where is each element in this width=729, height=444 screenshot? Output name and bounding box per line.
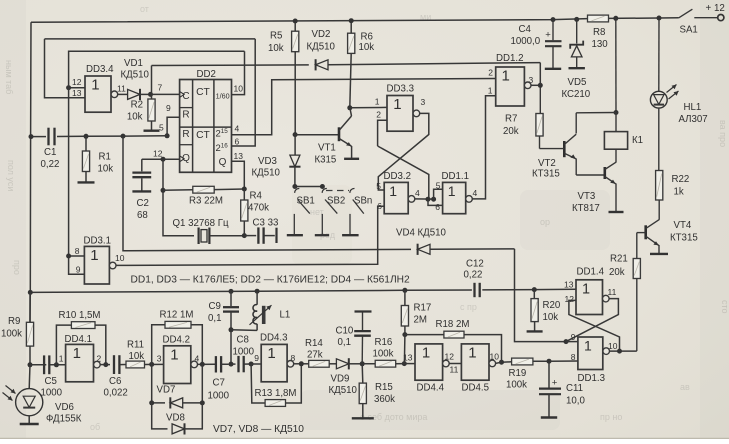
junction R5-VT1 base	[293, 132, 298, 137]
junction rail-VD5	[574, 17, 579, 22]
svg-text:КС210: КС210	[562, 89, 591, 100]
svg-text:4: 4	[235, 124, 240, 134]
junction VD7 left	[149, 400, 154, 405]
output bubble DD1.2	[524, 82, 531, 89]
resistor R19 100k	[512, 358, 533, 365]
svg-text:VD7: VD7	[157, 385, 176, 396]
inductor L1 variable	[256, 291, 258, 305]
transistor VT4 KT315	[644, 225, 647, 239]
svg-text:12: 12	[72, 77, 82, 87]
svg-text:+: +	[552, 377, 558, 388]
SB1 fixed contact bar	[275, 228, 277, 243]
junction SB1 top	[292, 184, 297, 189]
junction bus-R20	[532, 287, 537, 292]
svg-text:1: 1	[582, 281, 590, 297]
transistor VT1 K315	[338, 127, 341, 141]
svg-text:C2: C2	[137, 198, 149, 209]
svg-text:10k: 10k	[359, 42, 375, 53]
junction R17-R18	[402, 332, 407, 337]
resistor R7 20k	[539, 85, 541, 113]
resistor R1 10k	[85, 136, 87, 151]
svg-text:1: 1	[170, 346, 178, 363]
svg-text:SBn: SBn	[354, 196, 372, 207]
wire DD3.2 output to DD1.1 inputs	[415, 198, 435, 200]
junction C5-R10-DD4.1	[54, 362, 59, 367]
svg-text:DD1, DD3 — К176ЛЕ5; DD2 — К176: DD1, DD3 — К176ЛЕ5; DD2 — К176ИЕ12; DD4 …	[131, 275, 410, 286]
capacitor C10 0,1	[362, 312, 364, 331]
svg-text:R4: R4	[250, 191, 263, 202]
resistor R22 1k	[656, 171, 663, 201]
gate DD1.2	[496, 67, 525, 106]
svg-text:10: 10	[115, 253, 125, 263]
svg-text:20k: 20k	[609, 267, 625, 278]
gate DD4.3	[261, 344, 287, 381]
svg-text:6: 6	[235, 137, 240, 147]
svg-text:12: 12	[153, 149, 163, 159]
junction DD3.4 pin12 node	[66, 85, 71, 90]
svg-text:DD3.4: DD3.4	[86, 64, 114, 75]
junction bus-R17	[402, 288, 407, 293]
output bubble DD3.4	[111, 91, 118, 98]
svg-text:0,22: 0,22	[41, 159, 60, 170]
svg-text:VT4: VT4	[674, 220, 692, 231]
svg-text:КТ315: КТ315	[670, 233, 698, 244]
resistor R5 10k	[294, 21, 296, 31]
svg-text:4: 4	[473, 188, 478, 198]
junction frame-C1	[29, 134, 34, 139]
svg-text:360k: 360k	[374, 394, 395, 405]
junction R4 bottom	[242, 233, 247, 238]
resistor R11 10k	[126, 361, 145, 368]
wire DD3.3 output cross to DD3.2 pin5	[378, 113, 429, 190]
capacitor C9 0,1	[230, 291, 232, 306]
svg-text:100k: 100k	[506, 380, 527, 391]
junction bus-SB loop	[121, 134, 126, 139]
svg-text:3: 3	[157, 354, 162, 364]
wire DD3.4 pin13 input	[45, 39, 86, 98]
junction R11-DD4.2 node	[149, 362, 154, 367]
diode VD3 KD510	[294, 135, 296, 156]
output bubble DD1.3	[603, 348, 610, 355]
svg-text:1: 1	[389, 183, 397, 199]
wire DD2 pin10 output up	[232, 51, 245, 94]
wire +12 power rail	[31, 19, 588, 23]
svg-text:АЛ307: АЛ307	[679, 114, 708, 125]
capacitor C6 0,022	[113, 355, 115, 374]
wire crystal bottom	[209, 235, 244, 237]
junction pin5 bus	[165, 133, 170, 138]
svg-text:100k: 100k	[1, 329, 22, 340]
wire DD2 pin9 to pin5 tie	[167, 117, 180, 136]
svg-text:R3 22М: R3 22М	[189, 196, 223, 207]
svg-text:VD7, VD8 — КД510: VD7, VD8 — КД510	[213, 424, 304, 435]
svg-text:1: 1	[488, 86, 493, 96]
svg-text:3: 3	[421, 97, 426, 107]
svg-text:R12 1М: R12 1М	[160, 310, 194, 321]
svg-text:9: 9	[571, 332, 576, 342]
diode VD4 KD510	[418, 244, 430, 254]
svg-text:5: 5	[436, 181, 441, 191]
svg-text:13: 13	[564, 280, 574, 290]
junction R17-R16-DD4.4	[402, 361, 407, 366]
gate DD3.3	[387, 96, 413, 132]
svg-text:КТ817: КТ817	[572, 203, 600, 214]
junction rail-C4	[551, 17, 556, 22]
svg-text:8: 8	[75, 246, 80, 256]
svg-text:КД510: КД510	[329, 385, 358, 396]
svg-text:R5: R5	[270, 31, 282, 42]
capacitor C1 0,22	[47, 128, 49, 146]
svg-text:0,22: 0,22	[464, 270, 483, 281]
svg-text:HL1: HL1	[684, 102, 702, 113]
wire DD1.4 output cross to DD1.3 pin9	[566, 299, 618, 342]
svg-text:R1: R1	[99, 152, 111, 163]
svg-text:R: R	[182, 129, 189, 140]
wire DD1.1 output to DD1.2 pin1	[472, 96, 495, 199]
output bubble DD4.4	[443, 360, 450, 367]
svg-text:4: 4	[415, 188, 420, 198]
wire VD1 node to DD2 pin7	[151, 93, 180, 95]
gate DD4.1	[66, 344, 94, 381]
svg-text:Q1 32768 Гц: Q1 32768 Гц	[173, 218, 229, 229]
capacitor C5 1000	[43, 355, 45, 374]
svg-text:C10: C10	[336, 326, 354, 337]
junction R9-C5-VD6	[28, 362, 33, 367]
junction bus-frame	[28, 290, 33, 295]
junction DD4.5-R18	[499, 360, 504, 365]
svg-text:100k: 100k	[373, 349, 394, 360]
resistor R16 100k	[362, 363, 375, 365]
svg-text:R11: R11	[127, 340, 144, 351]
wire DD1.2 output node	[531, 84, 540, 86]
capacitor C12 0,22	[473, 283, 475, 297]
svg-text:9: 9	[166, 103, 171, 113]
output bubble DD3.2	[408, 196, 415, 203]
svg-text:DD2: DD2	[197, 69, 216, 80]
svg-text:1: 1	[448, 183, 456, 199]
svg-text:ав: ав	[680, 382, 690, 392]
junction pin12-crystal branch	[161, 157, 166, 162]
wire DD4.2 out node	[198, 363, 215, 365]
junction R19-C11-pin8	[547, 359, 552, 364]
svg-text:C9: C9	[209, 301, 221, 312]
svg-text:11: 11	[608, 287, 617, 297]
wire DD3.4 pin12 input	[69, 87, 85, 89]
junction rail-K1 branch	[613, 16, 618, 21]
junction bus-R1	[84, 134, 89, 139]
svg-text:VD3: VD3	[258, 156, 277, 167]
resistor R9 100k	[29, 292, 31, 322]
wire DD1.3 output to R21	[610, 350, 637, 352]
resistor R14 27k	[309, 360, 330, 367]
resistor R12 1M	[152, 325, 165, 365]
svg-text:R7: R7	[505, 114, 517, 125]
resistor R4 470k	[241, 200, 248, 221]
wire DD1.1 pin6 loop	[428, 199, 443, 205]
svg-text:5: 5	[376, 181, 381, 191]
junction VD1-R2 node	[148, 92, 153, 97]
wire DD2 pin6 output 2^16	[232, 39, 256, 146]
svg-text:1000: 1000	[208, 391, 230, 402]
svg-text:1: 1	[91, 77, 99, 94]
gate DD4.2	[164, 346, 191, 384]
wire DD1.1 pin5 loop	[434, 189, 443, 199]
svg-text:DD1.4: DD1.4	[577, 267, 605, 278]
junction rail-R5	[293, 19, 298, 24]
photodiode VD6 FD155K	[28, 365, 31, 389]
svg-text:470k: 470k	[248, 203, 269, 214]
wire VT1 collector to DD3.3 pin1	[350, 106, 387, 108]
svg-text:КД510: КД510	[307, 42, 336, 53]
junction DD4.1-R10-C6	[103, 362, 108, 367]
svg-text:10k: 10k	[98, 164, 114, 175]
pushbutton SB1	[295, 188, 300, 192]
svg-text:C6: C6	[109, 376, 121, 387]
gate DD3.4	[85, 76, 111, 112]
svg-text:DD4.4: DD4.4	[417, 383, 445, 394]
svg-text:5: 5	[159, 123, 164, 133]
wire DD4.4 to DD4.5	[449, 363, 461, 365]
svg-text:VD8: VD8	[166, 413, 185, 424]
junction VD7 right	[200, 400, 205, 405]
svg-text:1k: 1k	[674, 187, 684, 198]
svg-text:2: 2	[376, 110, 381, 120]
gate DD1.1	[443, 182, 466, 213]
svg-text:11: 11	[450, 365, 459, 375]
wire crystal branch vertical	[163, 159, 194, 236]
svg-text:C3 33: C3 33	[253, 218, 279, 229]
resistor R8	[588, 15, 609, 22]
svg-text:КТ315: КТ315	[532, 169, 560, 180]
resistor R6 10k	[350, 21, 352, 34]
capacitor C8 1000	[237, 356, 239, 372]
svg-text:1: 1	[59, 354, 64, 364]
transistor VT3 KT817	[603, 167, 606, 179]
svg-text:C12: C12	[466, 259, 484, 270]
gate DD4.5	[461, 344, 489, 380]
gate DD3.1	[84, 246, 109, 284]
svg-text:пр но: пр но	[600, 412, 622, 422]
zener diode VD5 KC210	[576, 19, 578, 43]
svg-text:9: 9	[254, 353, 259, 363]
wire left frame vertical	[30, 22, 31, 322]
diode VD2 KD510	[316, 60, 328, 70]
svg-text:0,1: 0,1	[208, 313, 221, 324]
pushbutton SB2	[322, 188, 327, 192]
svg-text:68: 68	[137, 210, 148, 221]
svg-text:DD3.1: DD3.1	[84, 236, 111, 247]
junction DD1.2 output	[538, 83, 543, 88]
svg-text:VT3: VT3	[578, 191, 596, 202]
output bubble DD3.1	[109, 262, 116, 269]
output bubble DD4.2	[191, 361, 198, 368]
svg-text:R: R	[182, 110, 189, 121]
wire sensor row	[30, 364, 46, 366]
svg-text:R22: R22	[672, 174, 690, 185]
transistor VT2 KT315	[563, 141, 566, 157]
wire bus corner down to DD1.3 pin9	[515, 249, 567, 342]
svg-text:+: +	[545, 30, 551, 41]
output bubble DD1.4	[603, 295, 610, 302]
junction C7-C9-L1 node	[229, 362, 234, 367]
svg-text:C1: C1	[44, 147, 56, 158]
svg-text:10k: 10k	[543, 312, 559, 323]
wire DD2 pin4 output 2^15	[232, 79, 496, 135]
resistor R18 2M	[405, 334, 444, 336]
svg-text:VT1: VT1	[318, 143, 336, 154]
svg-text:R20: R20	[543, 300, 561, 311]
svg-text:7: 7	[158, 83, 163, 93]
svg-text:C4: C4	[519, 24, 532, 35]
svg-text:R19: R19	[509, 368, 527, 379]
junction DD3.2 out b	[431, 197, 436, 202]
svg-text:1/60: 1/60	[216, 91, 230, 100]
svg-text:13: 13	[72, 88, 82, 98]
resistor R20 10k	[533, 290, 535, 299]
svg-text:R15: R15	[375, 382, 393, 393]
svg-text:КД510: КД510	[252, 168, 281, 179]
wire DD4.5 output	[496, 362, 502, 363]
junction R3-R4-pin13 node	[242, 187, 247, 192]
svg-text:27k: 27k	[307, 350, 323, 361]
svg-text:1000: 1000	[233, 347, 255, 358]
diode VD7 KD510	[152, 364, 165, 403]
svg-text:DD1.2: DD1.2	[496, 53, 523, 64]
counter DD2 K176IE12	[180, 80, 232, 173]
diode VD9 KD510	[336, 359, 348, 369]
svg-text:10k: 10k	[129, 351, 145, 362]
svg-text:DD3.3: DD3.3	[387, 84, 414, 95]
svg-text:VD1: VD1	[124, 58, 143, 69]
wire SB common top	[295, 186, 323, 188]
LED HL1 AL307	[658, 18, 660, 91]
svg-text:+ 12: + 12	[706, 3, 725, 14]
svg-text:C8: C8	[237, 335, 249, 346]
junction K1 top node	[614, 110, 619, 115]
wire VT1 base	[295, 134, 339, 136]
svg-text:VD4 КД510: VD4 КД510	[396, 228, 447, 239]
svg-text:1: 1	[267, 345, 275, 362]
wire 2^16 to DD3.4 pin13 (top feedback)	[45, 38, 256, 40]
svg-text:SA1: SA1	[680, 25, 698, 36]
wire DD3.2 pin6 from DD3.1 output	[113, 206, 384, 265]
output bubble DD1.1	[466, 196, 473, 203]
wire R16 to DD4.4 pin13	[404, 363, 415, 365]
svg-text:C5: C5	[45, 376, 57, 387]
svg-text:VD6: VD6	[55, 402, 74, 413]
svg-text:13: 13	[234, 151, 244, 161]
wire keyboard bus with VD4	[123, 136, 411, 251]
svg-text:1: 1	[422, 344, 430, 361]
svg-text:1: 1	[468, 344, 476, 361]
svg-text:VD5: VD5	[568, 77, 587, 88]
svg-text:11: 11	[117, 84, 126, 94]
gate DD3.2	[384, 182, 408, 213]
wire DD2 pin13 output Q	[232, 161, 245, 189]
junction C9-L1 return	[229, 327, 234, 332]
diode VD8 KD510	[152, 403, 168, 429]
svg-text:130: 130	[592, 39, 609, 50]
wire C1 bus to DD2 pin5	[31, 136, 46, 138]
svg-text:C: C	[182, 91, 189, 102]
svg-text:DD4.1: DD4.1	[65, 334, 92, 345]
wire rail to K1 and VT2 collector	[615, 18, 617, 112]
svg-text:DD3.2: DD3.2	[384, 171, 411, 182]
svg-text:К315: К315	[315, 155, 337, 166]
svg-text:1000: 1000	[41, 388, 63, 399]
wire main lower bus to DD1.4 pin13	[30, 291, 231, 292]
svg-text:10: 10	[234, 84, 244, 94]
svg-text:Q: Q	[219, 157, 227, 168]
resistor R2 10k	[151, 94, 153, 99]
relay K1	[604, 132, 627, 150]
capacitor C7 1000	[215, 356, 217, 372]
svg-text:0,022: 0,022	[104, 388, 128, 399]
wire DD1.2 output feedback to VD1 node	[151, 66, 153, 95]
svg-text:R14: R14	[305, 338, 323, 349]
svg-text:20k: 20k	[503, 126, 519, 137]
svg-text:DD1.1: DD1.1	[442, 171, 469, 182]
svg-text:9: 9	[76, 264, 81, 274]
wire DD3.1 inputs tie	[69, 88, 85, 256]
switch SA1	[679, 9, 693, 18]
capacitor C4 1000,0	[552, 20, 554, 41]
output bubble DD4.3	[287, 361, 294, 368]
gate DD4.4	[415, 344, 443, 380]
output bubble DD4.5	[489, 360, 496, 367]
svg-text:L1: L1	[280, 310, 291, 321]
wire DD3.3 pin2 input	[378, 120, 387, 146]
svg-text:от: от	[140, 4, 149, 14]
svg-text:C11: C11	[566, 383, 583, 394]
quartz crystal Q1 32768 Hz	[198, 228, 200, 245]
wire DD4.1 out node	[100, 364, 110, 366]
wire SB mechanical link dashed	[326, 190, 349, 192]
junction DD1.3 pin9	[564, 339, 569, 344]
svg-text:К1: К1	[632, 135, 643, 146]
junction SB2 top	[320, 184, 325, 189]
svg-text:ФД155К: ФД155К	[46, 414, 82, 425]
svg-text:R2: R2	[131, 100, 143, 111]
resistor R21 20k	[636, 233, 638, 259]
junction R3 left	[161, 188, 166, 193]
junction DD1.3 output	[617, 349, 622, 354]
wire DD3.3 pin2 cross from DD3.2 output	[378, 146, 429, 199]
resistor R3 22M	[163, 189, 193, 192]
junction DD3.1 pin8	[66, 254, 71, 259]
svg-text:13: 13	[403, 353, 413, 363]
svg-text:R18 2М: R18 2М	[436, 319, 470, 330]
wire DD2 pin12 Q input	[142, 158, 180, 160]
resistor R10 1,5M	[56, 325, 71, 365]
svg-text:R10 1,5М: R10 1,5М	[59, 310, 101, 321]
svg-text:10k: 10k	[268, 43, 284, 54]
capacitor C11 10,0	[548, 361, 550, 388]
svg-text:1: 1	[375, 97, 380, 107]
resistor R13 1,8M	[251, 364, 265, 403]
svg-text:об: об	[90, 422, 100, 432]
gate DD1.3	[578, 337, 603, 370]
svg-text:CT: CT	[196, 87, 210, 98]
junction rail-HL1	[657, 16, 662, 21]
svg-text:2М: 2М	[414, 315, 427, 326]
junction DD4.3 output	[299, 361, 304, 366]
svg-text:1: 1	[502, 68, 510, 85]
svg-text:R16: R16	[375, 337, 393, 348]
svg-text:VD9: VD9	[331, 374, 350, 385]
capacitor C3 33	[244, 235, 256, 237]
resistor R15 360k	[361, 364, 364, 383]
